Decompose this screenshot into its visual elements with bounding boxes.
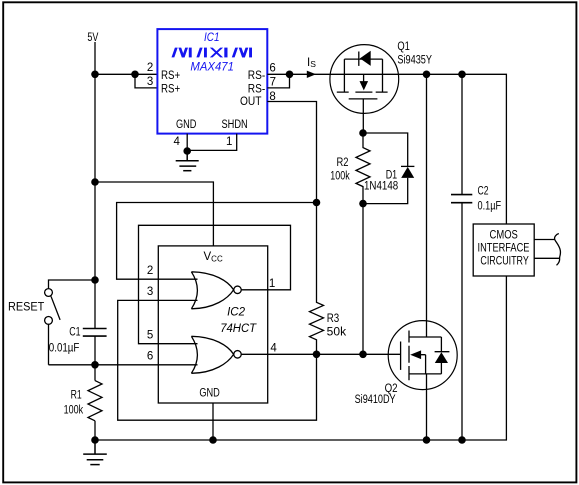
wire: bottom ground rail <box>95 276 506 440</box>
svg-text:50k: 50k <box>327 327 347 339</box>
Q1 source-drain through wire <box>330 73 399 75</box>
node junction Q2 source/rail <box>423 436 431 444</box>
svg-text:IC2: IC2 <box>227 306 246 318</box>
op-amp U1 : IC1 MAX471 box <box>157 29 267 134</box>
transistor Q2 <box>355 71 458 441</box>
capacitor C1 <box>49 327 107 355</box>
node junction top rail/C2 <box>458 71 466 79</box>
svg-text:Q1: Q1 <box>397 41 410 53</box>
svg-text:1: 1 <box>226 136 232 148</box>
CMOS box outline <box>473 224 534 276</box>
svg-text:R2: R2 <box>337 157 349 169</box>
NOR gate B output pin4 wire to Q2 gate <box>241 353 400 355</box>
svg-text:CIRCUITRY: CIRCUITRY <box>480 255 529 267</box>
wire: RS- pin7 up to junction <box>267 74 289 88</box>
svg-text:100k: 100k <box>330 170 350 182</box>
Q1 bulk tap arrow <box>363 74 365 81</box>
svg-text:CMOS: CMOS <box>490 229 519 241</box>
svg-text:GND: GND <box>176 119 197 131</box>
R3 zigzag <box>310 203 324 355</box>
Q2 gate electrode <box>400 342 402 370</box>
svg-text:SHDN: SHDN <box>222 119 248 131</box>
svg-text:0.01µF: 0.01µF <box>49 343 80 355</box>
NOR gate B body <box>191 336 233 373</box>
svg-text:5: 5 <box>147 330 153 342</box>
wire reset top <box>49 280 96 288</box>
svg-text:2: 2 <box>147 62 153 74</box>
node junction gate/R2/D1 top <box>359 129 367 137</box>
Q1 channel segments <box>337 91 388 93</box>
wire: Vcc feed from rail to IC2 <box>95 182 213 246</box>
svg-text:5V: 5V <box>87 32 98 44</box>
node junction R2 line/pin4 row <box>359 351 367 359</box>
node junction R2/D1 bottom <box>359 200 367 208</box>
switch top contact <box>45 289 53 297</box>
C2 plates <box>451 195 472 203</box>
IC2 box outline <box>158 246 267 403</box>
R1 zigzag <box>88 381 102 421</box>
node junction C2/rail <box>458 436 466 444</box>
svg-text:3: 3 <box>147 76 153 88</box>
Q2 internal conductors <box>409 337 441 374</box>
svg-text:Si9410DY: Si9410DY <box>355 394 396 406</box>
resistor R1 <box>64 381 102 421</box>
IC2 GND pin wire <box>212 403 214 440</box>
switch blade <box>51 296 60 320</box>
resistor R2 and diode D1 <box>330 129 414 354</box>
svg-text:0.1µF: 0.1µF <box>478 201 502 213</box>
svg-text:RESET: RESET <box>8 302 44 314</box>
capacitor C2 <box>451 71 501 441</box>
wire Q2 drain <box>426 74 428 337</box>
svg-text:C2: C2 <box>478 186 489 198</box>
svg-text:3: 3 <box>147 286 153 298</box>
svg-text:INTERFACE: INTERFACE <box>478 242 530 254</box>
IC1 box outline <box>157 29 267 134</box>
wire: left rail between C1 and R1 <box>94 336 96 380</box>
wire: pin3 branch <box>135 74 157 88</box>
resistor R2 <box>356 133 370 204</box>
node junction top rail/Q2 drain <box>423 71 431 79</box>
Q2 channel segments <box>408 331 410 381</box>
wire to D1 top <box>363 133 408 166</box>
svg-text:1: 1 <box>269 278 275 290</box>
Q1 gate electrode <box>349 98 378 100</box>
MAXIM logo <box>172 48 253 58</box>
svg-text:1N4148: 1N4148 <box>364 180 398 192</box>
svg-text:RS+: RS+ <box>161 84 180 96</box>
wire: 5V to IC1 pin2 <box>95 73 157 75</box>
ground bottom left <box>83 440 107 465</box>
transistor Q1 <box>330 41 432 133</box>
diode D1 <box>401 165 414 167</box>
svg-text:7: 7 <box>270 77 276 89</box>
svg-text:C1: C1 <box>69 327 80 339</box>
node junction pin6/7 <box>286 71 294 79</box>
CMOS interface box <box>473 224 560 276</box>
node junction R1/ground rail <box>91 436 99 444</box>
svg-text:GND: GND <box>199 388 220 400</box>
svg-text:MAX471: MAX471 <box>190 61 234 73</box>
logic IC2 74HCT <box>49 225 401 440</box>
node junction pin2/pin3 <box>131 71 139 79</box>
resistor R3 <box>310 203 347 355</box>
Q1 outline circle <box>330 45 399 114</box>
node junction R3/pin4/loop <box>313 351 321 359</box>
wire C2 bottom <box>461 203 463 440</box>
wire: IC1 pin1 SHDN down and left <box>187 134 237 151</box>
node junction rail/pin6 <box>91 361 99 369</box>
wire C2 top <box>461 74 463 194</box>
switch RESET <box>8 276 99 365</box>
wire stub out 2 <box>534 257 560 259</box>
ground below IC1 <box>176 151 199 171</box>
svg-text:4: 4 <box>174 136 181 148</box>
NOR gate A input pin3 wire <box>118 300 317 420</box>
node junction rail/vcc <box>91 178 99 186</box>
node junction OUT/R3 <box>313 199 321 207</box>
wire: OUT pin8 right and down <box>267 102 316 203</box>
svg-text:RS-: RS- <box>248 70 266 82</box>
switch bottom contact <box>45 317 53 325</box>
svg-text:4: 4 <box>270 342 277 354</box>
wire reset bottom <box>48 325 50 365</box>
node junction gnd/shdn <box>183 147 191 155</box>
node junction 5V/pin2 <box>91 71 99 79</box>
svg-text:RS-: RS- <box>248 84 266 96</box>
wire: OUT node to pin2 of IC2 <box>117 203 317 280</box>
Q2 body diode <box>435 337 450 374</box>
svg-text:2: 2 <box>147 265 153 277</box>
NOR gate B output bubble <box>234 351 242 359</box>
NOR gate A output bubble <box>234 286 242 294</box>
squiggle continuation mark <box>555 234 561 266</box>
svg-text:RS+: RS+ <box>161 70 180 82</box>
svg-text:R1: R1 <box>71 390 82 402</box>
wire stub out 1 <box>534 239 554 241</box>
wire: left rail R1 bottom to ground rail <box>94 421 96 440</box>
svg-text:IC1: IC1 <box>204 32 220 44</box>
svg-text:OUT: OUT <box>240 96 262 108</box>
NOR gate A body <box>191 272 233 309</box>
svg-text:100k: 100k <box>64 404 84 416</box>
node junction rail/reset <box>91 276 99 284</box>
svg-text:6: 6 <box>147 351 153 363</box>
svg-text:6: 6 <box>269 63 275 75</box>
svg-text:R3: R3 <box>327 313 340 325</box>
Q1 internal conductors <box>344 59 382 92</box>
C1 plates <box>83 329 107 337</box>
Q1 gate lead <box>362 99 364 133</box>
wire: RS- pin6 to junction <box>267 73 289 75</box>
node junction IC2 gnd/rail <box>209 436 217 444</box>
wire: top supply line to Q1 and beyond <box>290 74 507 224</box>
svg-text:74HCT: 74HCT <box>220 323 257 335</box>
svg-text:Si9435Y: Si9435Y <box>397 55 432 67</box>
svg-text:IS: IS <box>307 57 316 69</box>
wire arrow Is <box>307 71 316 78</box>
wire Q2 source <box>426 374 428 440</box>
Q1 body diode <box>358 52 360 66</box>
wire R2 bottom down to Q2 gate row <box>362 204 364 355</box>
wire: IC1 pin4 GND down <box>186 134 188 151</box>
NOR gate B input pin6 wire <box>49 364 198 366</box>
NOR gate A output pin1 wire loop to pin5 <box>139 225 291 343</box>
wire: 5V left rail top (x=95) <box>94 42 96 328</box>
Q2 bulk tap arrow <box>410 350 421 359</box>
Q2 outline circle <box>388 321 457 390</box>
